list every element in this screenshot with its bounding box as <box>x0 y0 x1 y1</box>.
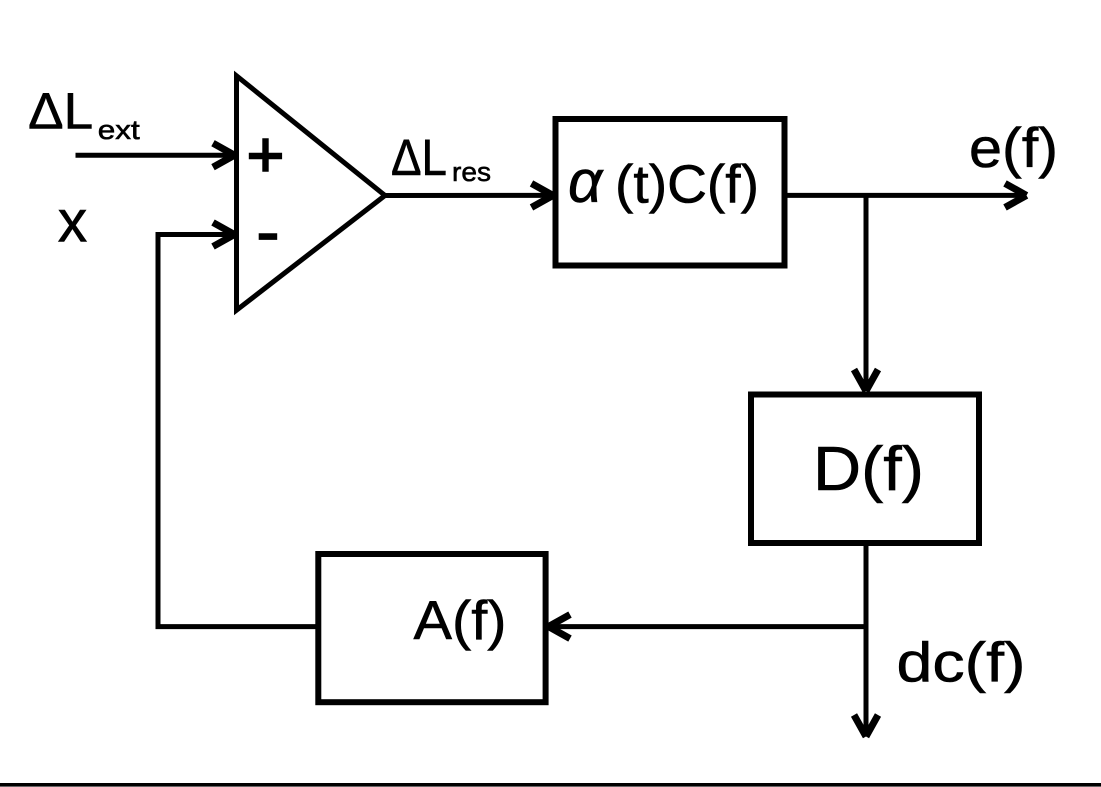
arrowhead into - input <box>213 223 235 247</box>
wire: feedback path from A(f) up to - input of U1 <box>158 235 316 627</box>
arrowhead into D(f) <box>854 370 878 392</box>
svg-text:α: α <box>568 148 604 215</box>
summing junction U1 (comparator triangle) <box>237 76 386 310</box>
svg-text:x: x <box>58 189 88 255</box>
arrowhead of e(f) <box>1005 183 1027 207</box>
block D(f) <box>751 395 979 544</box>
wire: ΔL_res from U1 apex to block alpha(t)C(f) <box>385 193 552 198</box>
arrowhead into A(f) right side <box>549 615 571 639</box>
wire: branch down from e(f) line to D(f) <box>864 195 869 389</box>
svg-text:e(f): e(f) <box>969 116 1058 179</box>
svg-text:dc(f): dc(f) <box>897 631 1026 694</box>
wire: output e(f) from alpha(t)C(f) <box>787 193 1025 198</box>
svg-text:res: res <box>452 157 491 187</box>
arrowhead into alpha(t)C(f) <box>532 183 554 207</box>
wire: ΔL_ext input into + of U1 <box>76 153 234 158</box>
arrowhead of dc(f) <box>854 715 878 737</box>
bottom rule <box>0 783 1101 787</box>
wire: dc(f) output going down from D(f) <box>864 546 869 735</box>
svg-text:ext: ext <box>98 115 141 145</box>
svg-text:A(f): A(f) <box>414 589 507 651</box>
arrowhead into + input <box>213 143 235 167</box>
svg-text:ΔL: ΔL <box>391 129 447 186</box>
block alpha(t)C(f) <box>556 119 785 266</box>
minus sign at - input of U1 <box>259 233 278 240</box>
block A(f) <box>318 554 545 702</box>
wire: from dc(f) line left into A(f) <box>552 624 866 629</box>
svg-text:ΔL: ΔL <box>28 83 93 140</box>
svg-text:(t)C(f): (t)C(f) <box>615 155 759 214</box>
svg-text:D(f): D(f) <box>813 435 924 504</box>
plus sign at + input of U1 <box>249 138 282 172</box>
